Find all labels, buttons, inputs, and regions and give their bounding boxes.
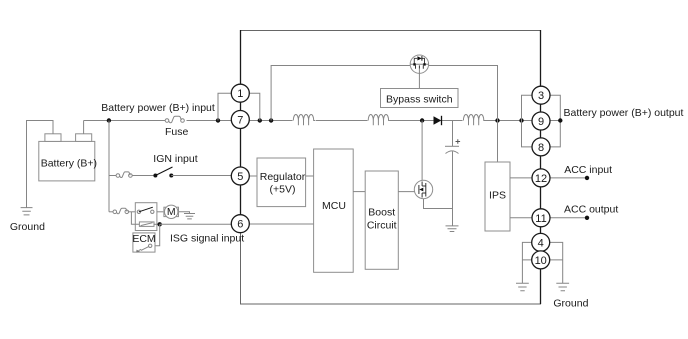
- svg-text:8: 8: [538, 142, 544, 154]
- svg-text:M: M: [167, 206, 176, 218]
- svg-text:7: 7: [237, 115, 243, 127]
- svg-text:IGN input: IGN input: [153, 153, 197, 165]
- svg-text:Ground: Ground: [10, 221, 45, 233]
- svg-text:Boost: Boost: [368, 207, 395, 219]
- svg-text:4: 4: [538, 237, 544, 249]
- svg-text:Battery (B+): Battery (B+): [41, 157, 97, 169]
- svg-text:(+5V): (+5V): [270, 184, 296, 196]
- svg-text:9: 9: [538, 116, 544, 128]
- svg-text:3: 3: [538, 90, 544, 102]
- svg-text:Ground: Ground: [553, 298, 588, 310]
- svg-text:Regulator: Regulator: [260, 171, 306, 183]
- svg-text:Battery power (B+) input: Battery power (B+) input: [101, 102, 215, 114]
- svg-text:ISG signal input: ISG signal input: [170, 232, 244, 244]
- svg-text:Battery power (B+) output: Battery power (B+) output: [564, 107, 684, 119]
- svg-text:11: 11: [535, 213, 546, 225]
- svg-text:Bypass switch: Bypass switch: [386, 94, 453, 106]
- svg-text:Fuse: Fuse: [165, 126, 189, 138]
- svg-text:10: 10: [535, 255, 547, 267]
- svg-text:ACC output: ACC output: [564, 204, 618, 216]
- svg-text:6: 6: [237, 219, 243, 231]
- svg-text:5: 5: [237, 171, 243, 183]
- svg-text:IPS: IPS: [489, 190, 506, 202]
- svg-text:ECM: ECM: [132, 233, 155, 245]
- svg-text:ACC input: ACC input: [564, 164, 612, 176]
- svg-text:MCU: MCU: [322, 200, 346, 212]
- svg-text:1: 1: [237, 88, 243, 100]
- svg-text:Circuit: Circuit: [367, 219, 397, 231]
- svg-text:12: 12: [535, 173, 547, 185]
